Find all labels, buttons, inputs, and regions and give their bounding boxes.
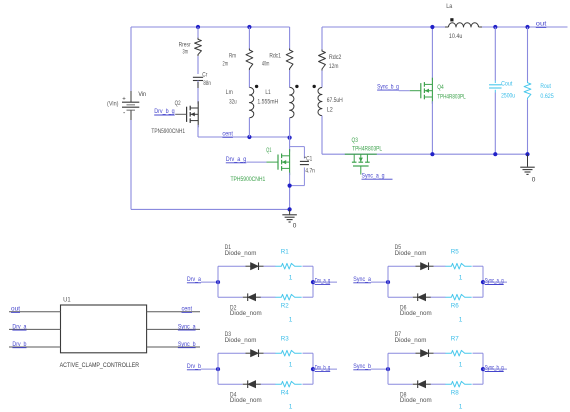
transistor Q2 TPN5900CNH1 bbox=[197, 101, 199, 127]
capacitor Cout bbox=[489, 84, 502, 86]
wire Q2 gate lead bbox=[175, 113, 186, 115]
wire right vertical bbox=[482, 353, 484, 384]
node junction Sync_a left bbox=[386, 280, 390, 284]
svg-text:Q2: Q2 bbox=[175, 100, 181, 107]
wire top branch bbox=[218, 352, 246, 354]
wire top rail primary (Vin+ to transformer) bbox=[131, 26, 290, 28]
svg-text:1.555mH: 1.555mH bbox=[257, 99, 278, 106]
node junction top rail x=527 (out) bbox=[525, 25, 529, 29]
svg-text:R6: R6 bbox=[451, 303, 459, 310]
resistor R6 bbox=[445, 294, 471, 300]
svg-text:1: 1 bbox=[459, 404, 463, 411]
svg-text:Drv_b: Drv_b bbox=[12, 341, 26, 348]
wire Q1 source down to bottom rail bbox=[289, 173, 291, 210]
resistor Rdc2 bbox=[321, 27, 323, 50]
svg-text:Sync_a_g: Sync_a_g bbox=[362, 172, 385, 179]
wire left vertical bbox=[387, 353, 389, 384]
diode D8 bbox=[418, 381, 426, 388]
svg-text:12m: 12m bbox=[329, 63, 339, 70]
svg-text:(Vin): (Vin) bbox=[107, 101, 119, 108]
resistor R4 bbox=[275, 381, 301, 387]
polarity dot L2 bbox=[313, 85, 316, 88]
node junction bottom rail x=495 bbox=[493, 152, 497, 156]
wire C1 loop bottom bbox=[290, 185, 305, 187]
svg-text:Vin: Vin bbox=[138, 91, 146, 98]
svg-text:Diode_nom: Diode_nom bbox=[395, 337, 427, 344]
diode D1 bbox=[251, 263, 259, 270]
wire Rout to bottom rail bbox=[527, 100, 529, 155]
svg-text:0: 0 bbox=[532, 176, 536, 183]
node junction cent rail x=249 bbox=[247, 135, 251, 139]
wire Q4 gate lead green bbox=[410, 90, 421, 92]
svg-text:Diode_nom: Diode_nom bbox=[230, 310, 262, 317]
svg-text:Rm: Rm bbox=[229, 52, 236, 59]
svg-text:3m: 3m bbox=[183, 48, 189, 55]
svg-text:1: 1 bbox=[459, 317, 463, 324]
resistor Rout bbox=[524, 81, 531, 100]
wire input lead Sync_b bbox=[371, 368, 388, 370]
svg-text:cent: cent bbox=[222, 131, 233, 138]
svg-text:L1: L1 bbox=[265, 89, 271, 96]
wire Cr to Q2 drain bbox=[197, 81, 199, 104]
wire L2 down to secondary bottom rail bbox=[321, 116, 323, 155]
wire U1 pin cent (right 1) bbox=[147, 311, 200, 313]
svg-text:Sync_a: Sync_a bbox=[178, 323, 196, 330]
wire right vertical bbox=[312, 266, 314, 297]
svg-text:1: 1 bbox=[459, 275, 463, 282]
node junction top rail x=495 (Cout) bbox=[493, 25, 497, 29]
wire input lead Sync_a bbox=[371, 281, 388, 283]
wire right vertical bbox=[482, 266, 484, 297]
svg-text:R4: R4 bbox=[281, 390, 289, 397]
wire secondary bottom rail bbox=[322, 153, 528, 155]
wire U1 pin Sync_a (right 2) bbox=[147, 328, 200, 330]
inductor La (output) bbox=[445, 26, 449, 28]
inductor L2 (secondary winding) bbox=[318, 88, 322, 116]
wire Cout to bottom rail bbox=[494, 90, 496, 93]
svg-text:R8: R8 bbox=[451, 390, 459, 397]
node junction Drv_b left bbox=[216, 367, 220, 371]
ground secondary (0) bbox=[527, 154, 529, 167]
svg-text:Diode_nom: Diode_nom bbox=[225, 337, 257, 344]
node junction top rail x=432 bbox=[430, 25, 434, 29]
wire Rm to Lm bbox=[248, 70, 250, 87]
svg-text:1: 1 bbox=[289, 404, 293, 411]
svg-text:Sync_b: Sync_b bbox=[353, 363, 371, 370]
wire top rail secondary left of La bbox=[322, 26, 446, 28]
svg-text:Diode_nom: Diode_nom bbox=[225, 250, 257, 257]
wire C1 loop top bbox=[290, 146, 305, 148]
resistor Rresr bbox=[197, 27, 199, 38]
svg-text:Diode_nom: Diode_nom bbox=[395, 250, 427, 257]
node junction Drv_a_g right bbox=[311, 280, 315, 284]
node junction Sync_b_g right bbox=[481, 367, 485, 371]
svg-text:Rout: Rout bbox=[540, 83, 551, 90]
node junction cent rail x=290 bbox=[288, 136, 292, 140]
svg-text:La: La bbox=[446, 3, 452, 10]
svg-text:TPN5900CNH1: TPN5900CNH1 bbox=[151, 128, 185, 135]
svg-text:Lm: Lm bbox=[226, 89, 233, 96]
svg-text:U1: U1 bbox=[63, 296, 71, 303]
wire bottom branch bbox=[218, 383, 243, 385]
wire Rresr to Cr bbox=[197, 56, 199, 74]
svg-text:TPH4R803PL: TPH4R803PL bbox=[352, 146, 382, 153]
node junction Drv_b_g right bbox=[311, 367, 315, 371]
node junction bottom rail x=527 / ground bbox=[525, 152, 529, 156]
polarity dot L1 bbox=[295, 85, 298, 88]
node junction Drv_a left bbox=[216, 280, 220, 284]
svg-text:4.7n: 4.7n bbox=[305, 167, 315, 174]
wire Q1 gate lead green bbox=[267, 161, 279, 163]
svg-text:C1: C1 bbox=[306, 155, 312, 162]
wire left vertical bbox=[217, 353, 219, 384]
wire Q2 source to cent rail bbox=[197, 125, 199, 137]
resistor R2 bbox=[275, 294, 301, 300]
wire bottom branch bbox=[388, 296, 413, 298]
wire bottom rail primary (Vin- to ground) bbox=[131, 208, 290, 210]
wire C1 loop right lower bbox=[303, 168, 305, 186]
resistor Rm bbox=[248, 27, 250, 49]
transistor Q1 TPH5900CNH1 bbox=[289, 149, 291, 175]
svg-text:ACTIVE_CLAMP_CONTROLLER: ACTIVE_CLAMP_CONTROLLER bbox=[60, 362, 140, 369]
transistor Q4 branch wire upper bbox=[431, 27, 433, 80]
svg-text:Cout: Cout bbox=[501, 81, 512, 88]
node junction bottom rail x=432 bbox=[430, 152, 434, 156]
svg-text:32u: 32u bbox=[229, 99, 237, 106]
wire Q1 gate lead blue bbox=[247, 161, 267, 163]
resistor R3 bbox=[275, 350, 301, 356]
svg-text:R2: R2 bbox=[281, 303, 289, 310]
diode D6 bbox=[418, 294, 426, 301]
svg-text:Drv_a: Drv_a bbox=[12, 323, 26, 330]
svg-text:TPH4R803PL: TPH4R803PL bbox=[437, 94, 466, 101]
polarity dot Lm bbox=[255, 85, 258, 88]
wire Q3 gate lead bbox=[360, 166, 362, 175]
wire top branch bbox=[388, 352, 416, 354]
svg-text:Drv_b_g: Drv_b_g bbox=[154, 108, 175, 115]
svg-text:R1: R1 bbox=[281, 249, 289, 256]
svg-text:Sync_b_g: Sync_b_g bbox=[377, 83, 399, 90]
wire right vertical bbox=[312, 353, 314, 384]
wire top branch bbox=[218, 265, 246, 267]
svg-text:Diode_nom: Diode_nom bbox=[400, 310, 432, 317]
resistor R5 bbox=[445, 263, 471, 269]
wire Q4 gate lead blue bbox=[399, 90, 410, 92]
transistor Q4 TPH4R803PL (freewheel) bbox=[431, 78, 433, 104]
svg-text:10.4u: 10.4u bbox=[449, 33, 463, 40]
node junction Sync_b left bbox=[386, 367, 390, 371]
svg-text:Drv_a: Drv_a bbox=[187, 276, 201, 283]
wire Lm to cent rail bbox=[248, 118, 250, 137]
wire output lead Drv_a_g bbox=[313, 281, 337, 283]
svg-text:Diode_nom: Diode_nom bbox=[230, 397, 262, 404]
resistor Rout branch upper bbox=[527, 27, 529, 82]
wire left vertical bbox=[387, 266, 389, 297]
svg-text:R3: R3 bbox=[281, 336, 289, 343]
inductor Lm (magnetizing) bbox=[249, 87, 253, 117]
wire output lead Sync_b_g bbox=[483, 368, 507, 370]
wire Rdc1 to L1 bbox=[289, 70, 291, 87]
svg-text:Sync_a: Sync_a bbox=[353, 276, 371, 283]
polarity dot La bbox=[450, 18, 453, 21]
wire U1 pin Sync_b (right 3) bbox=[147, 346, 200, 348]
svg-text:Drv_b: Drv_b bbox=[187, 363, 201, 370]
resistor R1 bbox=[275, 263, 301, 269]
diode D7 bbox=[421, 350, 429, 357]
wire Vin- down to bottom rail bbox=[130, 120, 132, 209]
wire top branch bbox=[388, 265, 416, 267]
svg-text:Sync_a_g: Sync_a_g bbox=[485, 278, 504, 285]
wire U1 pin Drv_b (left 3) bbox=[9, 346, 61, 348]
svg-text:1: 1 bbox=[289, 362, 293, 369]
node junction C1 bottom on Q1 source wire bbox=[288, 184, 292, 188]
wire input lead Drv_a bbox=[201, 281, 218, 283]
svg-text:Diode_nom: Diode_nom bbox=[400, 397, 432, 404]
wire top rail secondary right of La bbox=[482, 26, 568, 28]
capacitor Cout branch upper bbox=[494, 27, 496, 81]
svg-text:Rdc1: Rdc1 bbox=[269, 52, 281, 59]
wire bottom branch bbox=[218, 296, 243, 298]
resistor Rdc1 bbox=[289, 27, 291, 49]
wire Rdc2 to L2 bbox=[321, 71, 323, 88]
svg-text:Drv_a_g: Drv_a_g bbox=[226, 156, 247, 163]
svg-text:out: out bbox=[536, 21, 547, 28]
wire output lead Drv_b_g bbox=[313, 368, 337, 370]
svg-text:+: + bbox=[122, 97, 126, 103]
wire U1 pin Drv_a (left 2) bbox=[9, 328, 61, 330]
wire output lead Sync_a_g bbox=[483, 281, 507, 283]
svg-text:Sync_b_g: Sync_b_g bbox=[485, 365, 504, 372]
svg-text:TPH5900CNH1: TPH5900CNH1 bbox=[231, 176, 266, 183]
svg-text:Rdc2: Rdc2 bbox=[329, 54, 342, 61]
capacitor C1 bbox=[300, 160, 309, 162]
resistor R8 bbox=[445, 381, 471, 387]
svg-text:L2: L2 bbox=[327, 107, 333, 114]
svg-text:Sync_b: Sync_b bbox=[178, 341, 196, 348]
wire C1 loop right upper bbox=[303, 147, 305, 159]
resistor R7 bbox=[445, 350, 471, 356]
node junction Sync_a_g right bbox=[481, 280, 485, 284]
node junction bottom rail / ground bbox=[288, 207, 292, 211]
svg-text:1: 1 bbox=[289, 317, 293, 324]
node junction top rail x=249 bbox=[247, 25, 251, 29]
svg-text:1: 1 bbox=[289, 275, 293, 282]
wire left vertical bbox=[217, 266, 219, 297]
svg-text:Q3: Q3 bbox=[352, 137, 359, 144]
svg-text:40m: 40m bbox=[262, 61, 270, 68]
svg-text:R7: R7 bbox=[451, 336, 459, 343]
wire input lead Drv_b bbox=[201, 368, 218, 370]
inductor L1 (primary winding) bbox=[290, 87, 294, 117]
svg-text:Q1: Q1 bbox=[266, 147, 272, 154]
svg-text:out: out bbox=[11, 306, 20, 313]
diode D3 bbox=[251, 350, 259, 357]
wire U1 pin out (left 1) bbox=[9, 311, 61, 313]
svg-text:2m: 2m bbox=[223, 61, 229, 68]
node junction top rail x=198 bbox=[196, 25, 200, 29]
svg-text:Cr: Cr bbox=[202, 72, 208, 79]
svg-text:88n: 88n bbox=[203, 80, 211, 87]
svg-text:1: 1 bbox=[459, 362, 463, 369]
svg-text:67.5uH: 67.5uH bbox=[327, 97, 343, 104]
capacitor Cr bbox=[193, 76, 203, 78]
wire L1 to cent / Q1 drain bbox=[289, 118, 291, 152]
svg-text:R5: R5 bbox=[451, 249, 459, 256]
wire Q4 source to bottom rail bbox=[431, 101, 433, 154]
ground primary (0) bbox=[289, 209, 291, 214]
svg-text:Q4: Q4 bbox=[437, 84, 444, 91]
svg-text:-: - bbox=[123, 110, 126, 117]
svg-text:2500u: 2500u bbox=[501, 93, 515, 100]
svg-text:Drv_a_g: Drv_a_g bbox=[315, 278, 331, 285]
wire bottom branch bbox=[388, 383, 413, 385]
svg-text:cent: cent bbox=[182, 306, 193, 313]
diode D2 bbox=[248, 294, 256, 301]
op-amp U1 ACTIVE_CLAMP_CONTROLLER box bbox=[61, 305, 147, 353]
transistor Q3 TPH4R803PL (sync rectifier) bbox=[345, 153, 377, 155]
svg-text:Drv_b_g: Drv_b_g bbox=[315, 365, 331, 372]
diode D5 bbox=[421, 263, 429, 270]
wire cent rail bbox=[198, 136, 290, 138]
diode D4 bbox=[248, 381, 256, 388]
svg-text:0: 0 bbox=[293, 222, 297, 229]
voltage source Vin (battery) bbox=[130, 27, 132, 91]
svg-text:0.625: 0.625 bbox=[540, 93, 554, 100]
